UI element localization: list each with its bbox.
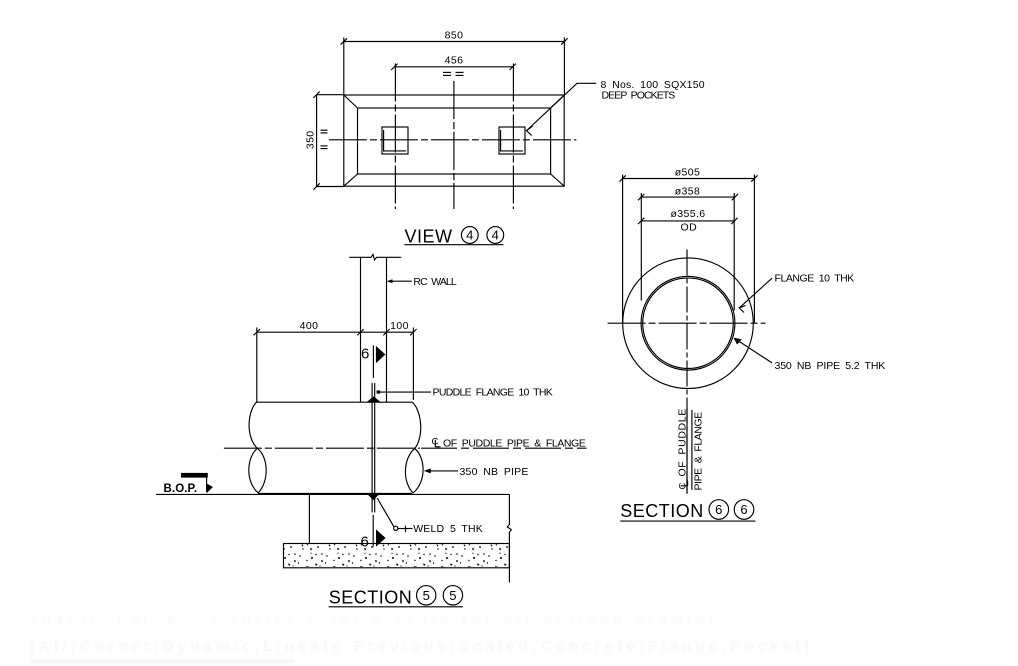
left pocket square xyxy=(382,127,408,154)
RC wall left line xyxy=(360,257,362,402)
svg-text:350 NB PIPE 5.2 THK: 350 NB PIPE 5.2 THK xyxy=(775,360,886,372)
dimension dia 505 xyxy=(619,166,757,181)
weld fillet at pipe top xyxy=(367,396,381,402)
WELD 5 THK leader xyxy=(377,498,483,535)
svg-text:100: 100 xyxy=(390,320,409,332)
chamfer corner lines xyxy=(344,95,564,186)
svg-text:VIEW: VIEW xyxy=(405,227,453,247)
svg-text:PIPE & FLANGE: PIPE & FLANGE xyxy=(693,412,705,491)
svg-text:ø355.6: ø355.6 xyxy=(670,208,705,220)
horizontal centerline xyxy=(608,322,766,324)
dimension 350 xyxy=(305,92,345,190)
FLANGE 10 THK label xyxy=(739,273,854,313)
350 NB PIPE 5.2 THK label xyxy=(734,338,886,372)
title VIEW 4 4 xyxy=(404,227,503,247)
svg-text:5: 5 xyxy=(423,588,430,603)
watermark rows xyxy=(30,611,810,663)
left pipe break xyxy=(249,402,266,493)
weld symbol 6 upper xyxy=(361,345,385,378)
svg-text:OF PUDDLE PIPE & FLANGE: OF PUDDLE PIPE & FLANGE xyxy=(443,437,586,449)
weld symbol 6 lower xyxy=(361,515,386,551)
right boundary line with break xyxy=(507,494,511,582)
svg-text:6: 6 xyxy=(715,502,722,517)
right pipe break xyxy=(405,402,423,493)
support line below BOP xyxy=(308,494,310,543)
svg-text:SECTION: SECTION xyxy=(620,501,704,521)
PUDDLE FLANGE label xyxy=(377,387,553,399)
pipe top edge xyxy=(257,401,413,403)
extension line dia505 right xyxy=(753,175,755,323)
svg-text:ø505: ø505 xyxy=(675,166,701,178)
title SECTION 6 6 xyxy=(620,500,755,521)
solid centerline segment below circle xyxy=(686,409,688,494)
vertical centerline left pocket xyxy=(394,64,396,210)
puddle flange plate (double line) xyxy=(372,383,375,512)
vertical centerline xyxy=(686,250,688,494)
pipe bottom edge xyxy=(258,492,412,494)
dimension 850 xyxy=(341,30,568,96)
equal-spacing marks left of plate xyxy=(321,130,328,148)
pipe wall circle xyxy=(643,278,734,369)
svg-text:850: 850 xyxy=(445,30,464,42)
svg-text:4: 4 xyxy=(492,228,499,243)
svg-text:specif. corner of suites ref: specif. corner of suites refer a scale f… xyxy=(30,611,720,627)
svg-text:FLANGE 10 THK: FLANGE 10 THK xyxy=(775,273,855,285)
svg-text:WELD 5 THK: WELD 5 THK xyxy=(413,523,483,535)
equal-spacing marks below 456 xyxy=(443,72,464,75)
horizontal centerline of plate xyxy=(329,139,577,141)
dimension dia 355.6 OD xyxy=(638,208,738,233)
pocket note leader xyxy=(527,83,597,135)
svg-text:5: 5 xyxy=(449,588,456,603)
vertical centerline right pocket xyxy=(512,64,514,210)
concrete slab xyxy=(284,544,510,568)
vertical centerline label CL OF PUDDLE xyxy=(677,409,689,490)
svg-text:6: 6 xyxy=(361,346,369,363)
flange bore circle xyxy=(641,276,735,370)
svg-text:PUDDLE FLANGE 10 THK: PUDDLE FLANGE 10 THK xyxy=(433,387,554,399)
svg-text:RC WALL: RC WALL xyxy=(413,276,457,288)
plate inner outline xyxy=(358,108,551,174)
vertical centerline middle xyxy=(453,81,455,209)
svg-text:DEEP POCKETS: DEEP POCKETS xyxy=(602,90,676,102)
underline of rotated PIPE & FLANGE label xyxy=(691,410,693,490)
RC WALL label xyxy=(387,276,457,288)
weld fillet below BOP xyxy=(368,494,379,500)
extension line dia505 left xyxy=(622,175,624,323)
plate outer outline xyxy=(344,95,564,186)
svg-text:6: 6 xyxy=(740,502,747,517)
pipe centerline xyxy=(224,447,420,449)
svg-text:400: 400 xyxy=(300,320,319,332)
RC wall right line xyxy=(386,257,388,402)
title SECTION 5 5 xyxy=(329,586,463,608)
svg-text:SECTION: SECTION xyxy=(329,587,413,607)
svg-text:350 NB PIPE: 350 NB PIPE xyxy=(460,466,529,478)
350 NB PIPE label xyxy=(424,466,529,478)
B.O.P. level line xyxy=(156,493,510,495)
B.O.P. marker xyxy=(164,473,213,495)
svg-text:OD: OD xyxy=(681,221,698,233)
dimension 456 xyxy=(391,55,516,71)
pocket note text xyxy=(601,79,705,101)
svg-text:ø358: ø358 xyxy=(675,185,701,197)
dimension dia 358 xyxy=(638,185,738,200)
extension line dia358 left xyxy=(640,193,642,301)
svg-text:456: 456 xyxy=(445,55,464,67)
flange outer circle xyxy=(623,258,754,389)
extension line dia358/355.6 right (overlapping, thick) xyxy=(733,193,735,311)
svg-text:350: 350 xyxy=(305,130,317,149)
right pocket square xyxy=(499,127,525,154)
svg-text:B.O.P.: B.O.P. xyxy=(164,483,198,495)
dimension 400 / 100 xyxy=(254,320,417,402)
RC wall top edge with break xyxy=(349,254,401,260)
centerline label CL OF PUDDLE PIPE & FLANGE xyxy=(421,437,587,450)
svg-text:4: 4 xyxy=(466,228,473,243)
